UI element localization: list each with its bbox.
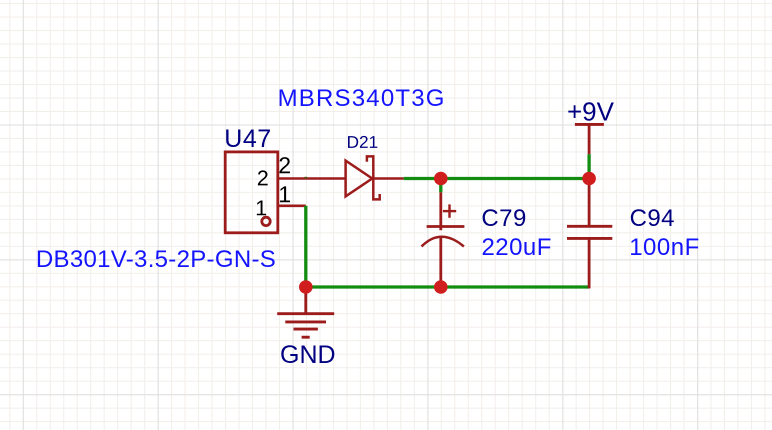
wire stub C79 top (439, 179, 442, 193)
wire bottom ground rail (306, 285, 589, 288)
connector U47 body (225, 152, 278, 233)
wire pin1 vertical to rail (304, 206, 307, 287)
ground symbol (277, 287, 334, 337)
diode D21 schottky cathode bar (367, 156, 380, 199)
svg-text:MBRS340T3G: MBRS340T3G (278, 85, 446, 112)
label U47 (224, 125, 271, 153)
label 100nF (629, 234, 700, 261)
label MBRS340T3G (278, 85, 446, 112)
label 220uF (482, 234, 552, 261)
capacitor C94 top plate (567, 225, 612, 228)
svg-text:U47: U47 (224, 125, 271, 153)
label GND (280, 341, 336, 369)
connector U47 pin number 2 (279, 157, 289, 173)
diode D21 triangle (346, 161, 373, 197)
label C79 (481, 205, 526, 232)
label DB301V-3.5-2P-GN-S (36, 246, 276, 273)
connector U47 pin 2 + diode D21 anode pin (279, 177, 347, 180)
label C94 (630, 205, 675, 232)
capacitor C79 curved plate (422, 237, 464, 247)
svg-text:220uF: 220uF (482, 234, 552, 261)
connector U47 pin 1 (279, 205, 306, 208)
junction node GND rail left (299, 280, 313, 294)
connector U47 pin number 1 (280, 186, 290, 202)
connector U47 pin name 2 (258, 170, 268, 185)
svg-text:100nF: 100nF (629, 234, 700, 261)
wire +9V symbol to node (587, 154, 590, 178)
power symbol +9V bar (575, 124, 604, 154)
capacitor C79 plus sign (443, 204, 456, 217)
connector U47 pin name 1 (257, 201, 266, 216)
connector U47 pin1 open circle (262, 217, 270, 225)
svg-text:GND: GND (280, 341, 336, 369)
capacitor C94 bottom lead (588, 238, 591, 288)
label D21 (348, 136, 377, 148)
capacitor C94 bottom plate (567, 237, 612, 240)
pin-to-pin connection mark U47.2 / D21.A (305, 177, 308, 179)
wire stub C79 bottom (439, 281, 442, 288)
svg-text:+9V: +9V (567, 97, 615, 127)
capacitor C79 top lead (439, 192, 442, 230)
capacitor C79 flat plate (427, 225, 465, 228)
label +9V (567, 97, 615, 127)
capacitor C79 bottom lead (439, 237, 442, 282)
junction node +9V-C94 (582, 172, 596, 186)
svg-text:DB301V-3.5-2P-GN-S: DB301V-3.5-2P-GN-S (36, 246, 276, 273)
junction node GND rail C79 (434, 280, 448, 294)
capacitor C94 top lead (588, 179, 591, 227)
wire main horizontal net +9V (404, 177, 589, 180)
svg-text:C79: C79 (481, 205, 526, 232)
svg-text:C94: C94 (630, 205, 675, 232)
junction node diode-C79-+9V (434, 172, 448, 186)
diode D21 cathode pin (373, 177, 403, 180)
